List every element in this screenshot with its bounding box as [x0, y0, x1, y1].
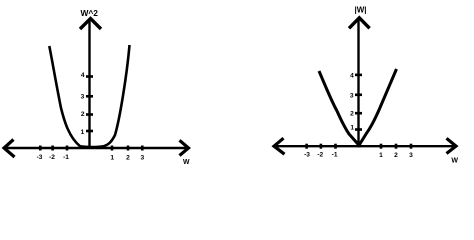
right plot y tick 1	[355, 128, 362, 131]
parabola curve w^2	[49, 45, 129, 147]
svg-text:W: W	[451, 158, 458, 165]
svg-text:-1: -1	[332, 152, 338, 159]
left plot x axis left arrowhead	[4, 140, 15, 158]
svg-text:W^2: W^2	[80, 8, 98, 18]
right plot y axis line	[357, 20, 359, 147]
left plot x tick 2	[127, 146, 130, 151]
svg-text:-2: -2	[49, 154, 55, 161]
svg-text:-2: -2	[317, 152, 323, 159]
right plot x axis left arrowhead	[274, 138, 285, 154]
left plot y tick 4	[86, 75, 93, 78]
right plot x tick 1	[380, 144, 383, 149]
right plot y axis top arrowhead	[349, 18, 370, 29]
svg-text:1: 1	[81, 129, 85, 136]
left plot y tick 1	[86, 130, 93, 133]
svg-text:2: 2	[350, 110, 354, 117]
right plot y tick 3	[355, 94, 362, 97]
svg-text:2: 2	[126, 154, 130, 161]
svg-text:3: 3	[140, 154, 144, 161]
left plot x axis right arrowhead	[180, 140, 189, 155]
right plot x axis right arrowhead	[447, 138, 457, 153]
right plot y tick 2	[355, 112, 362, 115]
right plot x tick -1	[334, 144, 337, 149]
left plot x tick 3	[141, 146, 144, 151]
abs value V right branch	[359, 69, 397, 145]
left plot y axis line	[88, 20, 90, 149]
right plot x tick -3	[305, 144, 308, 149]
right plot y tick 4	[355, 74, 362, 77]
svg-text:-3: -3	[37, 154, 43, 161]
right plot x tick 3	[410, 144, 413, 149]
svg-text:1: 1	[379, 152, 383, 159]
left plot y axis top arrowhead	[80, 19, 101, 30]
svg-text:-1: -1	[63, 154, 69, 161]
left plot y tick 2	[86, 113, 93, 116]
left plot x tick -3	[39, 146, 42, 151]
svg-text:4: 4	[81, 72, 85, 79]
left plot x axis line	[5, 147, 187, 149]
left plot y tick 3	[86, 95, 93, 98]
svg-text:1: 1	[350, 124, 354, 131]
svg-text:3: 3	[409, 152, 413, 159]
svg-text:|W|: |W|	[354, 6, 366, 15]
right plot x tick -2	[320, 144, 323, 149]
left plot x tick -2	[51, 146, 54, 151]
svg-text:3: 3	[81, 93, 85, 100]
svg-text:4: 4	[350, 72, 354, 79]
right plot x axis line	[275, 145, 454, 147]
svg-text:2: 2	[81, 111, 85, 118]
svg-text:3: 3	[350, 92, 354, 99]
left plot x tick -1	[66, 146, 69, 151]
svg-text:2: 2	[394, 152, 398, 159]
left plot x tick 1	[111, 146, 114, 151]
svg-text:W: W	[183, 159, 190, 166]
svg-text:-3: -3	[304, 152, 310, 159]
right plot x tick 2	[395, 144, 398, 149]
svg-text:1: 1	[110, 154, 114, 161]
abs value V left branch	[319, 71, 359, 145]
